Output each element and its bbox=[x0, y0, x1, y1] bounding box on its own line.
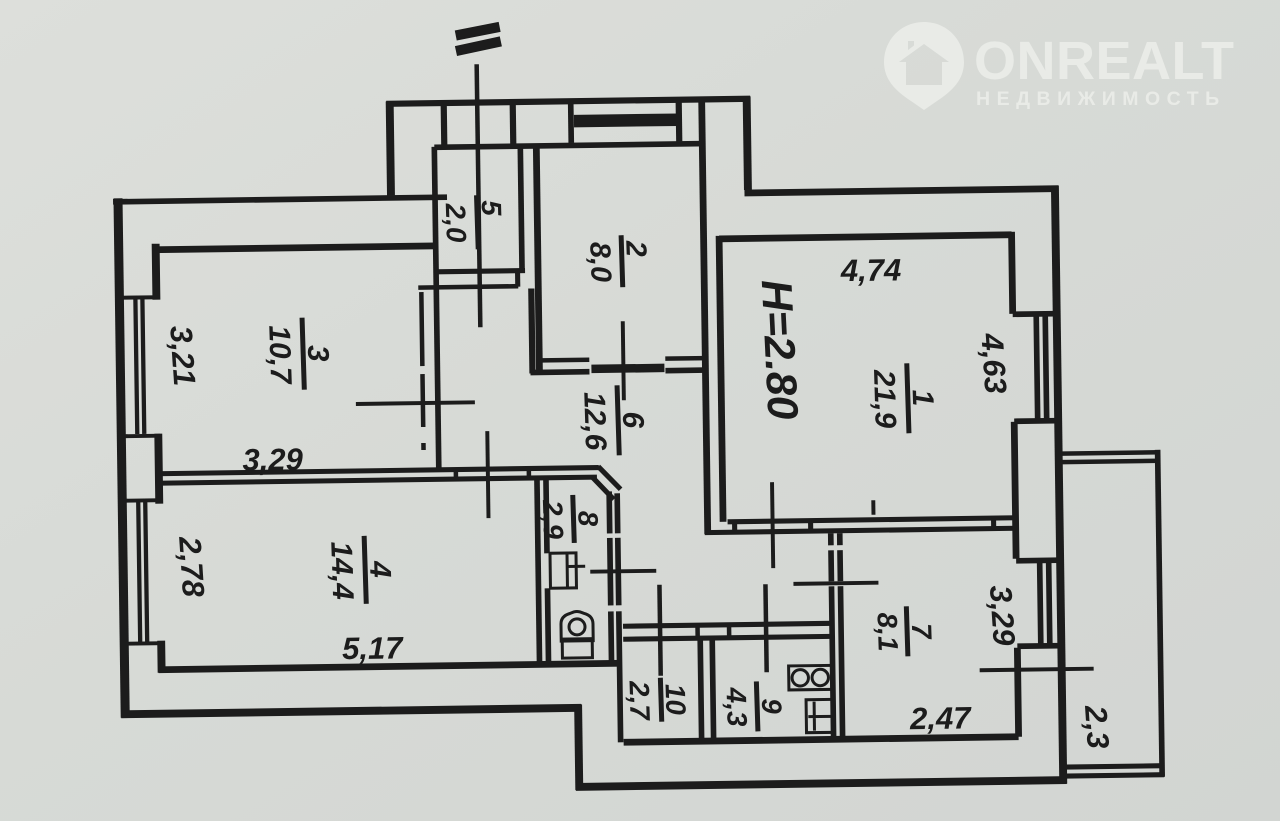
room1 bottom wall upper line bbox=[728, 518, 1016, 522]
room 10 label bbox=[623, 677, 691, 723]
window 3 jambs (room 1) bbox=[1013, 314, 1056, 422]
small tick near kitchen wall bbox=[871, 500, 875, 514]
window 1 sills (room 3) bbox=[116, 297, 160, 436]
room 4 label bbox=[324, 535, 397, 605]
room3-room4 wall upper line bbox=[156, 468, 599, 474]
top band bottom line bbox=[434, 144, 705, 148]
vent shaft black bar bbox=[574, 113, 678, 127]
outer wall top-middle section bbox=[386, 99, 750, 104]
svg-text:10,7: 10,7 bbox=[262, 325, 297, 386]
room 7 label bbox=[871, 605, 938, 657]
svg-text:4,63: 4,63 bbox=[974, 331, 1013, 395]
svg-text:3,29: 3,29 bbox=[242, 442, 304, 478]
top band divider d bbox=[676, 97, 683, 141]
svg-text:14,4: 14,4 bbox=[324, 541, 359, 601]
toilet bbox=[561, 611, 594, 658]
svg-text:2,7: 2,7 bbox=[623, 679, 655, 721]
bathroom right wall west line bbox=[609, 491, 611, 663]
svg-text:4,74: 4,74 bbox=[840, 252, 902, 288]
rooms 10-9 divider wall bbox=[700, 640, 713, 741]
room 5 left wall / corridor wall east line bbox=[434, 147, 438, 469]
balcony right wall bbox=[1158, 450, 1163, 777]
window 3 glazing (room 1) bbox=[1036, 315, 1046, 419]
bathroom chamfer inner bbox=[592, 476, 614, 499]
room2 bottom wall upper line right bbox=[665, 356, 705, 361]
outer wall bottom-right section bbox=[576, 780, 1067, 787]
bathroom left wall outer line bbox=[537, 477, 540, 664]
room 1 label bbox=[867, 362, 940, 434]
room1 bottom wall lower line bbox=[705, 528, 1016, 532]
room2 door black bar bbox=[591, 364, 664, 374]
svg-text:4: 4 bbox=[363, 560, 397, 579]
balcony door tick bbox=[980, 669, 1094, 671]
kitchen door tick bbox=[793, 583, 878, 584]
bathroom right wall east line bbox=[617, 493, 620, 742]
svg-text:9: 9 bbox=[756, 698, 787, 715]
bottom-right inner wall line bbox=[624, 737, 1019, 743]
window 4 jambs (room 7) bbox=[1016, 560, 1059, 646]
section line bbox=[477, 64, 481, 327]
outer wall step (bottom jog) bbox=[578, 704, 579, 789]
logo map pin with house bbox=[884, 22, 964, 110]
svg-text:12,6: 12,6 bbox=[577, 391, 612, 451]
room 5 bottom lower line bbox=[418, 286, 518, 287]
room 9 door jamb tick bbox=[765, 584, 766, 672]
outer wall top-right section bbox=[744, 189, 1058, 193]
svg-text:5,17: 5,17 bbox=[342, 630, 405, 666]
svg-text:7: 7 bbox=[906, 623, 938, 641]
room2 bottom wall upper line left bbox=[542, 357, 589, 362]
svg-text:6: 6 bbox=[616, 411, 650, 429]
stove (room 9) bbox=[789, 665, 832, 690]
svg-text:5: 5 bbox=[476, 200, 507, 217]
top band divider b bbox=[510, 100, 517, 147]
room 2 label bbox=[583, 234, 653, 288]
window 2 sills (room 4) bbox=[119, 500, 163, 644]
kitchen west wall lines with door bbox=[831, 533, 843, 739]
room3-room4 wall lower line bbox=[156, 477, 597, 483]
room 9 label bbox=[720, 680, 788, 732]
room 10 door jamb tick bbox=[659, 585, 660, 676]
outer wall right bbox=[1055, 186, 1063, 784]
svg-text:4,3: 4,3 bbox=[721, 686, 753, 727]
svg-text:3,29: 3,29 bbox=[983, 584, 1022, 647]
room 3 top inner wall line bbox=[153, 246, 436, 250]
svg-text:2,0: 2,0 bbox=[440, 202, 472, 243]
outer wall top step right vertical bbox=[747, 96, 748, 189]
room 5 bottom wall bbox=[436, 271, 525, 272]
left wall inner line bbox=[156, 244, 162, 673]
room2 bottom wall lower line left bbox=[530, 369, 589, 375]
balcony top wall bbox=[1062, 452, 1160, 462]
room1 bottom wall connectors bbox=[735, 518, 994, 532]
svg-text:2,78: 2,78 bbox=[172, 534, 211, 598]
svg-text:НЕДВИЖИМОСТЬ: НЕДВИЖИМОСТЬ bbox=[976, 88, 1226, 110]
svg-text:2,9: 2,9 bbox=[537, 499, 569, 540]
room 5 right wall bbox=[520, 146, 522, 271]
room 6 label bbox=[577, 384, 650, 456]
partition room2-room1 bbox=[702, 97, 708, 534]
top band divider a bbox=[441, 101, 448, 148]
svg-text:H=2.80: H=2.80 bbox=[752, 279, 807, 421]
room 1 door jamb tick bbox=[772, 482, 773, 568]
bottom-left inner wall line bbox=[159, 663, 622, 669]
room 1 top inner wall line bbox=[719, 235, 1011, 239]
window 4 glazing (room 7) bbox=[1040, 562, 1050, 644]
svg-text:10: 10 bbox=[660, 683, 692, 716]
room 3 label bbox=[262, 317, 335, 391]
outer wall top step left vertical bbox=[390, 101, 391, 195]
window 1 glazing (room 3) bbox=[135, 299, 144, 434]
room2 bottom wall lower line right bbox=[665, 367, 705, 373]
bathroom door tick bbox=[590, 569, 656, 574]
svg-text:8: 8 bbox=[572, 510, 603, 527]
balcony bottom wall bbox=[1066, 766, 1164, 776]
rooms 9-10 north wall lower line bbox=[623, 636, 831, 639]
corridor west wall line with door gaps bbox=[421, 292, 423, 450]
room 5 bottom jog bbox=[515, 270, 520, 287]
window 2 glazing (room 4) bbox=[138, 502, 147, 642]
rooms 9-10 north wall connectors bbox=[698, 625, 730, 638]
room 5 label bbox=[440, 194, 509, 250]
ONREALT watermark logo bbox=[884, 22, 1234, 110]
rooms 9-10 north wall upper line bbox=[623, 623, 832, 626]
outer wall top-left section bbox=[113, 197, 447, 202]
bathroom sink bbox=[550, 553, 585, 588]
svg-text:8,1: 8,1 bbox=[872, 612, 904, 652]
room2 door jamb tick bbox=[623, 321, 624, 400]
room 8 label bbox=[537, 494, 604, 544]
bathroom chamfer outer bbox=[598, 466, 620, 489]
room 3 door tick bbox=[356, 402, 475, 404]
outer wall left bbox=[118, 198, 125, 717]
right wall inner line bbox=[1012, 232, 1019, 737]
svg-text:3,21: 3,21 bbox=[163, 325, 202, 388]
top band divider c bbox=[568, 99, 574, 143]
room 2 left wall bbox=[536, 145, 539, 373]
section mark bar 1 bbox=[456, 27, 500, 36]
svg-text:ONREALT: ONREALT bbox=[974, 31, 1234, 91]
room 2 left wall second line bbox=[531, 289, 532, 374]
section mark bar 2 bbox=[456, 41, 501, 51]
room 1 left wall inner line bbox=[719, 236, 723, 522]
outer wall bottom-left section bbox=[121, 708, 581, 714]
room 4 door jamb tick bbox=[487, 431, 488, 518]
bathroom left wall inner line bbox=[546, 477, 549, 664]
room3-room4 wall connectors bbox=[456, 469, 529, 480]
svg-text:1: 1 bbox=[906, 389, 940, 407]
svg-text:2,3: 2,3 bbox=[1078, 703, 1116, 749]
svg-text:3: 3 bbox=[301, 344, 335, 362]
svg-text:8,0: 8,0 bbox=[583, 241, 616, 282]
svg-text:21,9: 21,9 bbox=[867, 368, 902, 429]
kitchen sink (room 9) bbox=[806, 699, 832, 732]
svg-text:2,47: 2,47 bbox=[909, 700, 973, 736]
